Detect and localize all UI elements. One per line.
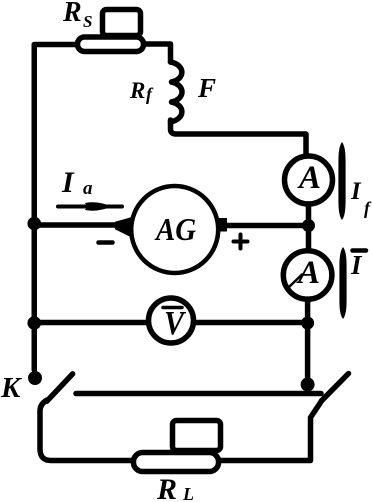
node: right rail / voltmeter wire junction (301, 317, 314, 330)
voltmeter V (149, 298, 194, 343)
node: left rail / armature wire junction (27, 217, 41, 231)
switch K terminal dot (28, 371, 42, 385)
rheostat RL body (134, 453, 219, 472)
wire: bottom loop through load (40, 400, 322, 461)
node: left rail / voltmeter wire junction (27, 316, 41, 330)
wire: left rail from RS left terminal down to switch K (34, 45, 75, 371)
meter needle in A2 (289, 275, 303, 288)
svg-text:S: S (83, 12, 92, 31)
brush: left (negative) (115, 217, 134, 239)
wire: AG positive brush to junction (226, 223, 306, 229)
wire: junction to AG negative brush (34, 222, 118, 228)
label I-bar (353, 248, 367, 253)
svg-text:f: f (364, 198, 372, 218)
svg-text:I: I (350, 178, 362, 205)
svg-text:f: f (146, 84, 154, 104)
svg-text:A: A (296, 255, 320, 291)
svg-text:AG: AG (154, 211, 196, 247)
svg-text:a: a (83, 178, 93, 199)
label minus (99, 240, 113, 245)
wire: coil bottom to ammeter A1 top (171, 120, 307, 154)
ammeter A2 (283, 251, 332, 300)
svg-text:R: R (62, 0, 82, 28)
switch blade left (47, 374, 73, 401)
resistor RS body (78, 37, 144, 52)
wire: A1 bottom to A2 top (306, 204, 312, 252)
svg-text:A: A (297, 160, 321, 196)
ammeter A1 (285, 156, 333, 204)
svg-text:L: L (182, 484, 194, 502)
svg-text:I: I (61, 166, 75, 199)
rheostat RL slider tap (173, 421, 221, 451)
svg-text:V: V (164, 305, 186, 342)
arrow for Ia (58, 205, 122, 209)
current marker I (spindle stroke) (339, 247, 346, 319)
inductor Rf field coil F (171, 62, 183, 122)
switch blade right (322, 374, 349, 401)
wire: voltmeter row from left rail to right rail (35, 320, 308, 326)
wire: A2 bottom down to switch bar (305, 299, 311, 392)
resistor RS slider tap (103, 10, 141, 36)
node: right rail / switch junction (301, 378, 315, 392)
label plus (234, 235, 248, 249)
wire: RS right terminal to top of field coil (146, 44, 171, 62)
svg-text:R: R (156, 473, 177, 502)
current marker If (spindle stroke) (338, 142, 345, 220)
brush: right (positive) (219, 218, 227, 232)
svg-text:K: K (0, 372, 22, 404)
generator AG (131, 186, 218, 273)
svg-text:F: F (197, 73, 216, 103)
switch bar (76, 391, 321, 397)
svg-text:R: R (129, 78, 145, 103)
svg-text:I: I (350, 250, 363, 280)
node: junction of AG+ wire and ammeter rail (302, 219, 315, 232)
